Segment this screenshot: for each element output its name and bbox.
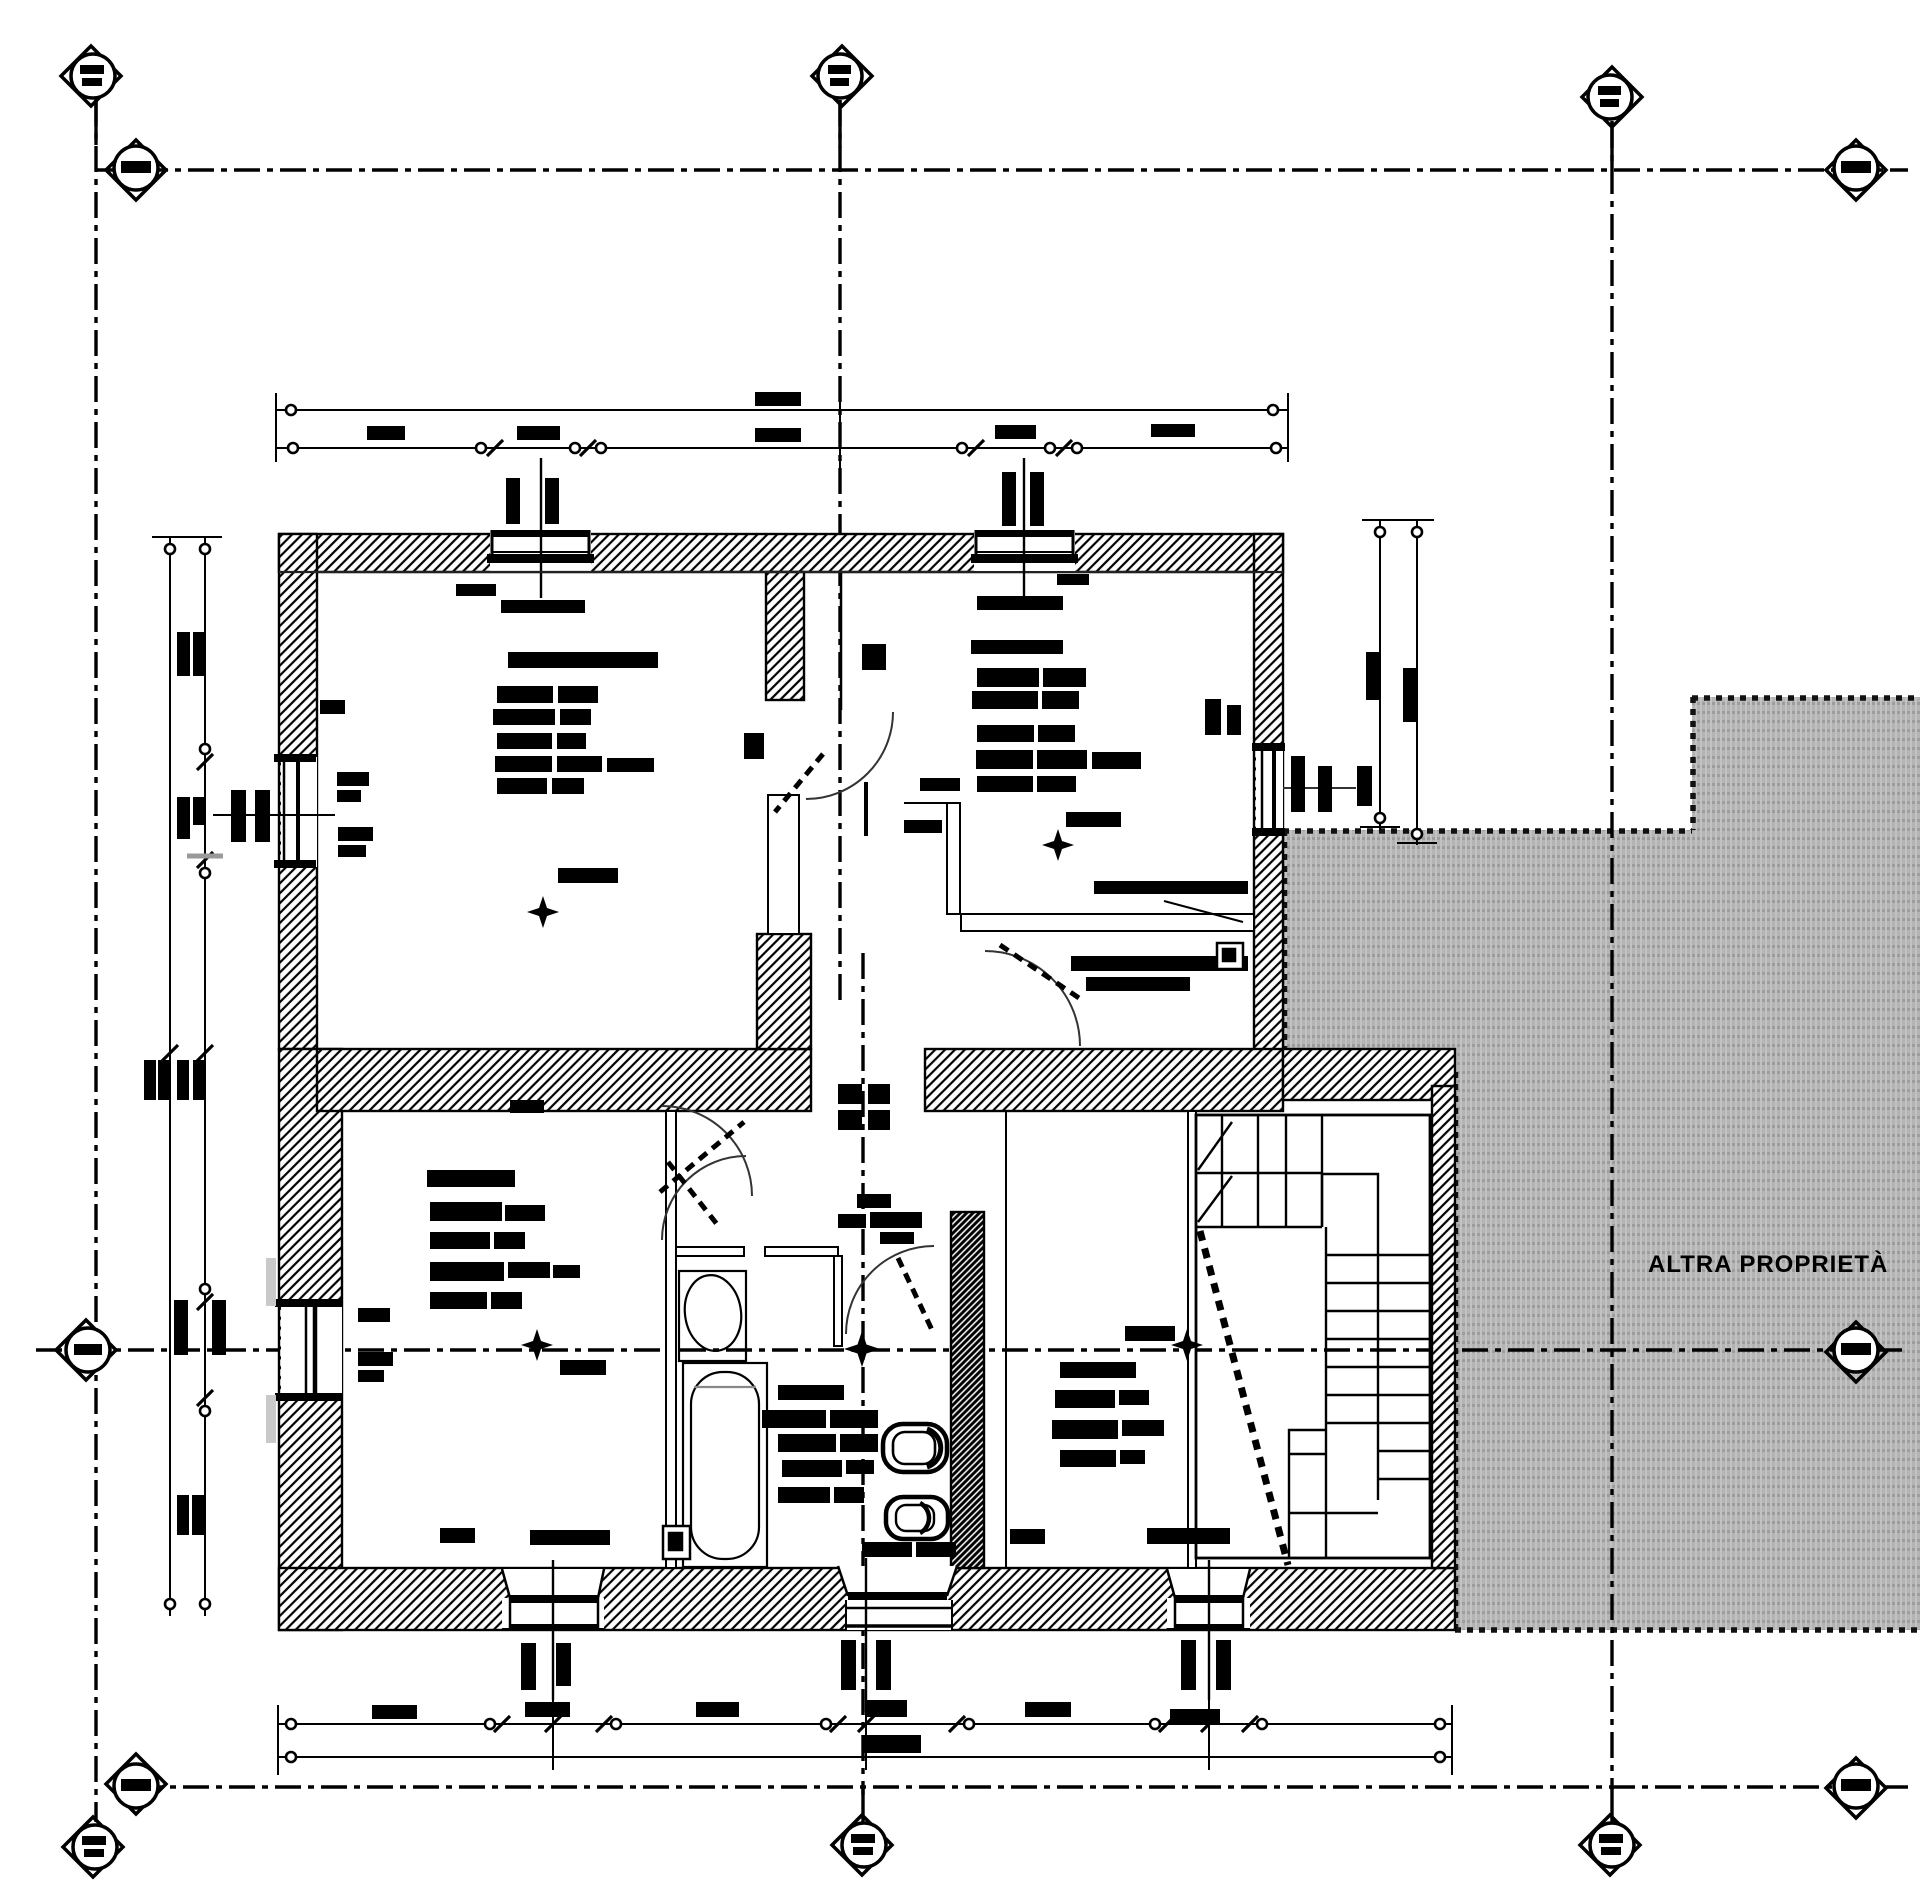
washbasin bbox=[679, 1271, 746, 1361]
window F5 room-side texts bbox=[1205, 699, 1221, 735]
marker stem A5 top-right bbox=[1610, 121, 1613, 168]
right dim text 1.61 bbox=[1366, 652, 1381, 700]
left dimension line inner bbox=[204, 537, 206, 1616]
outer wall top bbox=[279, 534, 1283, 572]
small text H bathroom bottom bbox=[862, 1542, 912, 1557]
room label bottom-right room bbox=[1060, 1362, 1136, 1378]
small text h0.92 top-right bbox=[977, 596, 1063, 610]
wall-mounted box fixture bbox=[1217, 943, 1243, 969]
bottom dim1 text 0.72 bbox=[525, 1702, 570, 1717]
grid marker left on H2 bbox=[56, 1320, 116, 1380]
stair right wall bbox=[1432, 1086, 1455, 1568]
interior wall hall upper bbox=[766, 572, 804, 700]
property boundary dotted line along stair right wall bbox=[1454, 1072, 1459, 1630]
dim stub under entrance bbox=[865, 1712, 867, 1770]
stair top wall bbox=[1283, 1049, 1455, 1100]
bidet bbox=[886, 1497, 948, 1539]
partition jamb below door D2 bbox=[864, 782, 868, 836]
small dim 3.48 bottom-left bottom bbox=[440, 1528, 475, 1543]
window F7 stub fraction texts bbox=[1181, 1640, 1196, 1690]
grid marker B left on H1 bbox=[106, 140, 166, 200]
door fraction label WC door bbox=[857, 1194, 891, 1208]
room label top-left room bbox=[508, 652, 658, 668]
dimension tick marks bbox=[162, 440, 1258, 1732]
level text +2.80 bottom-left room bbox=[560, 1360, 606, 1375]
partition top-left room lower jamb strip bbox=[768, 795, 799, 934]
stair right flight stringer bbox=[1325, 1227, 1327, 1430]
small text above door D2 bbox=[862, 644, 886, 670]
stair arrow chevrons bbox=[1198, 1122, 1232, 1170]
grid marker A1 top-centre bbox=[812, 46, 872, 106]
window F3 fraction texts bbox=[231, 790, 246, 842]
top dim text 8.35 bbox=[755, 392, 801, 406]
door D6 leaf bbox=[898, 1258, 932, 1330]
bottom dim1 text 2.05 bbox=[372, 1705, 417, 1719]
boiler box bathroom corner bbox=[663, 1526, 690, 1559]
stair upper flight risers bbox=[1221, 1115, 1223, 1227]
window F1 fraction texts bbox=[506, 478, 520, 524]
grid marker A4 bottom-left bbox=[63, 1817, 123, 1877]
property boundary dotted line top bbox=[1692, 695, 1920, 701]
entrance door opening bottom wall bbox=[838, 1558, 957, 1712]
left wall small text 4.17 bbox=[320, 700, 345, 714]
door D5 bathroom arc bbox=[662, 1156, 746, 1240]
bottom dim2 text 11.10 bbox=[862, 1735, 921, 1753]
marker stem A4 top-left bbox=[94, 98, 97, 145]
top dim2 text 1.90 bbox=[367, 426, 405, 440]
door D3 arc bbox=[662, 1106, 752, 1196]
right dimension line inner bbox=[1416, 520, 1418, 845]
dim stub under bottom window F6 bbox=[552, 1700, 554, 1770]
level text +2.80 top-left room bbox=[558, 868, 618, 883]
outer wall left lower bbox=[279, 1049, 342, 1630]
top dim2 text 3.42 bbox=[755, 428, 801, 442]
door D4 arc bbox=[985, 951, 1080, 1046]
small text near door D1 bbox=[744, 733, 764, 759]
marker stem A1 top-centre bbox=[838, 100, 841, 148]
window F5 right wall bbox=[1252, 743, 1356, 836]
small dim 3.10 bottom-right bbox=[1010, 1529, 1045, 1544]
left dim text 8.00 pair bbox=[144, 1060, 156, 1100]
grid marker left on H3 bbox=[106, 1754, 166, 1814]
right dim text 1.98 bbox=[1403, 668, 1418, 722]
grid marker A5 top-right bbox=[1582, 67, 1642, 127]
property boundary dotted line notch left bbox=[1690, 697, 1696, 830]
room label bottom-left room bbox=[427, 1170, 515, 1187]
new masonry wall beside WC (dense) bbox=[951, 1212, 984, 1568]
partition top-right room left edge bbox=[840, 572, 843, 710]
door D5 leaf bbox=[668, 1162, 720, 1228]
window F2 fraction texts bbox=[1002, 472, 1016, 526]
level text +2.80 top-right room bbox=[1066, 812, 1121, 827]
partition top-right room bottom (double line) bbox=[961, 914, 1254, 931]
grid marker A1 bottom-centre bbox=[832, 1815, 892, 1875]
property boundary dotted line over stair top wall bbox=[1283, 1070, 1455, 1075]
stair top landing outline bbox=[1196, 1115, 1430, 1558]
dim stub under window F7 bbox=[1208, 1700, 1210, 1770]
small text M3 bottom-left bottom bbox=[530, 1530, 610, 1545]
top dim2 text 1.98 bbox=[1151, 424, 1195, 437]
window F6 stub fraction texts bbox=[521, 1643, 536, 1690]
floor level stars bbox=[521, 829, 1203, 1367]
window F3 room-side texts bbox=[337, 772, 369, 786]
bottom dim1 text 1.70 bbox=[1170, 1709, 1220, 1724]
axis line V2 upper (vertical centre) bbox=[838, 100, 841, 1000]
door D6 WC arc bbox=[846, 1246, 934, 1334]
axis line H3 (horizontal bottom) bbox=[137, 1785, 1908, 1788]
left dim text 3.95b pair bbox=[177, 1495, 189, 1535]
small dim 3.67 bottom-left bbox=[510, 1100, 544, 1113]
property boundary dotted line along building right wall bbox=[1283, 830, 1288, 1053]
top dimension line 1 bbox=[276, 409, 1288, 411]
partition bathroom left wall bbox=[666, 1111, 676, 1568]
window F4 fraction texts bbox=[174, 1300, 188, 1355]
grid marker A5 bottom-right bbox=[1580, 1815, 1640, 1875]
door D1 hall arc bbox=[806, 712, 893, 799]
small dim 2.67 top-right bbox=[1057, 574, 1089, 585]
door fraction label middle wall gap bbox=[838, 1084, 862, 1104]
axis line V1 (vertical left) bbox=[94, 100, 97, 1822]
entrance stub fraction texts bbox=[841, 1640, 856, 1690]
small text M3 bottom-right bbox=[1147, 1528, 1230, 1544]
stair lower landing outline bbox=[1289, 1430, 1326, 1558]
annotation al filo muro 1 bbox=[1094, 881, 1248, 894]
stair cut diagonal bbox=[1200, 1231, 1288, 1565]
axis stub through top dims bbox=[839, 393, 841, 470]
svg-text:ALTRA PROPRIETÀ: ALTRA PROPRIETÀ bbox=[1648, 1250, 1888, 1278]
window F4 room-side texts bbox=[358, 1308, 390, 1322]
bottom dim1 text 2.80 bbox=[696, 1702, 739, 1717]
left dimension line outer bbox=[169, 537, 171, 1616]
top dim2 text 3.01 bbox=[995, 425, 1036, 439]
window F7 bottom wall right bbox=[1167, 1560, 1250, 1700]
window F4 left wall lower bbox=[266, 1258, 342, 1443]
corridor text 1.57 bbox=[920, 778, 960, 791]
marker stem bottom-centre bbox=[861, 1787, 864, 1822]
right dim text 0.90 bbox=[1357, 766, 1372, 806]
outer wall left upper bbox=[279, 534, 317, 1049]
stair mid landing line bbox=[1196, 1172, 1322, 1174]
toilet WC bbox=[883, 1424, 947, 1472]
door D3 leaf bbox=[660, 1122, 744, 1192]
top dim2 text 0.90 bbox=[517, 426, 560, 440]
grid marker right end H1 bbox=[1826, 140, 1886, 200]
corridor text 1.47 bbox=[904, 820, 942, 833]
grid marker A4 top-left bbox=[61, 46, 121, 106]
left dim text 1.48 pair bbox=[177, 632, 190, 676]
partition bath / WC vertical bbox=[834, 1256, 842, 1346]
middle wall right segment bbox=[925, 1049, 1283, 1111]
axis line H2 (horizontal middle) bbox=[36, 1348, 1908, 1351]
axis line V2 lower bbox=[861, 953, 864, 1795]
bathtub bbox=[683, 1363, 767, 1567]
small dim 3.67 top-left bbox=[456, 584, 496, 596]
partition hall top horizontal bbox=[904, 802, 947, 804]
bottom dim1 text 2.60 bbox=[1025, 1702, 1071, 1717]
partition bathroom top wall left of door bbox=[676, 1247, 744, 1256]
door D4 leaf bbox=[1000, 945, 1082, 1000]
stair right flight treads bbox=[1326, 1254, 1430, 1256]
staircase bbox=[1196, 1115, 1430, 1565]
property boundary dotted line step bbox=[1283, 828, 1692, 834]
grid marker right end H3 bbox=[1826, 1758, 1886, 1818]
outer wall right bbox=[1254, 534, 1283, 1053]
rotated dim texts bbox=[144, 472, 1418, 1690]
room label bathroom bbox=[778, 1385, 844, 1400]
window F3 left wall upper bbox=[213, 754, 335, 868]
partition bathroom top wall right of door bbox=[765, 1247, 838, 1256]
stair upper right step bbox=[1322, 1174, 1378, 1227]
middle wall left segment bbox=[317, 1049, 811, 1111]
top dimension line 2 bbox=[276, 447, 1288, 449]
marker stem bottom-right bbox=[1610, 1787, 1613, 1822]
level text +2.77 bottom-right room bbox=[1125, 1326, 1175, 1341]
small text M3 h0.92 top-left bbox=[501, 600, 585, 613]
axis line V3 (vertical right) bbox=[1610, 122, 1613, 1790]
stair inner stringer bbox=[1377, 1227, 1379, 1500]
partition stair left bbox=[1188, 1111, 1196, 1568]
axis line H1 (horizontal top) bbox=[96, 168, 1908, 171]
stair bottom edge of upper run bbox=[1196, 1226, 1322, 1228]
window F1 top wall left bbox=[279, 458, 1283, 598]
door D1 leaf bbox=[775, 754, 823, 812]
bottom dim1 text 0.72b bbox=[865, 1700, 907, 1717]
neighbouring property grey area (ALTRA PROPRIETA) bbox=[1283, 697, 1920, 1630]
property boundary dotted line bottom bbox=[1455, 1627, 1920, 1633]
bottom dimension line 2 bbox=[278, 1756, 1452, 1758]
partition stair top inner bbox=[1196, 1114, 1432, 1116]
room label top-right room bbox=[971, 640, 1063, 654]
hall stub wall bbox=[757, 934, 811, 1049]
outer wall bottom bbox=[279, 1568, 1455, 1630]
window F5 fraction texts bbox=[1291, 756, 1305, 812]
partition WC right edge line bbox=[1005, 1111, 1007, 1568]
window F6 bottom wall left bbox=[502, 1560, 604, 1700]
bottom dimension line 1 bbox=[278, 1723, 1452, 1725]
dimension end circles bbox=[165, 405, 1445, 1762]
annotation al filo muro 2 bbox=[1071, 956, 1248, 971]
partition hall right vertical bbox=[947, 803, 960, 914]
right dimension line outer bbox=[1379, 520, 1381, 830]
left dim text 0.90 pair near window F3 bbox=[177, 797, 190, 839]
grid marker right on H2 bbox=[1826, 1322, 1886, 1382]
window F2 top wall right bbox=[971, 458, 1078, 598]
